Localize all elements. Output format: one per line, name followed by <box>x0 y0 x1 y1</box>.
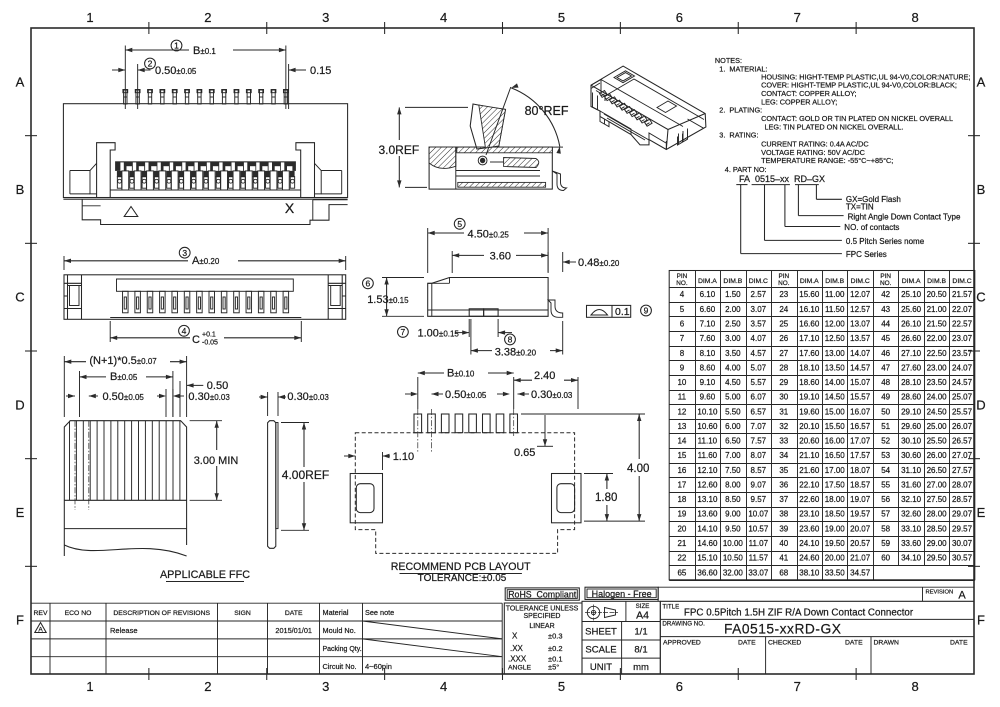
svg-text:CHECKED: CHECKED <box>768 639 801 646</box>
svg-text:29.00: 29.00 <box>927 539 948 548</box>
svg-text:6.50: 6.50 <box>725 437 741 446</box>
svg-text:PIN: PIN <box>880 273 891 280</box>
lever view: bottom hatched strip <box>458 182 546 187</box>
svg-text:FA0515-xxRD-GX: FA0515-xxRD-GX <box>724 622 841 637</box>
svg-text:4.07: 4.07 <box>751 334 767 343</box>
svg-text:21.10: 21.10 <box>799 451 820 460</box>
svg-text:5: 5 <box>558 679 565 694</box>
dimension 0.30±0.03 (PCB) <box>497 393 509 395</box>
svg-text:TOLERANCE UNLESS: TOLERANCE UNLESS <box>506 606 579 613</box>
svg-text:2.40: 2.40 <box>534 370 555 382</box>
isometric view: right hole <box>657 101 677 113</box>
svg-text:57: 57 <box>881 510 890 519</box>
svg-text:42: 42 <box>881 290 890 299</box>
svg-text:NO.: NO. <box>676 280 688 287</box>
svg-text:60: 60 <box>881 554 890 563</box>
svg-text:14.00: 14.00 <box>825 378 846 387</box>
svg-text:28.07: 28.07 <box>952 480 973 489</box>
svg-text:33.60: 33.60 <box>901 539 922 548</box>
svg-text:18.60: 18.60 <box>799 378 820 387</box>
svg-text:4~60pin: 4~60pin <box>365 662 392 671</box>
svg-text:DATE: DATE <box>950 639 968 646</box>
svg-text:3.57: 3.57 <box>751 319 767 328</box>
svg-text:31: 31 <box>779 407 788 416</box>
svg-text:11.50: 11.50 <box>825 305 845 314</box>
svg-text:0.30±0.03: 0.30±0.03 <box>287 391 329 403</box>
svg-text:26.00: 26.00 <box>927 451 948 460</box>
svg-text:25.07: 25.07 <box>952 393 973 402</box>
svg-text:DIM.B: DIM.B <box>723 278 742 285</box>
svg-text:26: 26 <box>779 334 788 343</box>
dimension 1.10 <box>382 452 384 470</box>
svg-text:36: 36 <box>779 480 788 489</box>
svg-text:X: X <box>285 200 295 216</box>
svg-text:28.50: 28.50 <box>927 524 948 533</box>
top view: contact teeth row <box>123 291 129 313</box>
svg-text:LINEAR: LINEAR <box>529 623 554 630</box>
svg-text:Release: Release <box>110 626 138 635</box>
svg-text:10.60: 10.60 <box>697 422 718 431</box>
sheet/scale/unit block <box>582 601 660 674</box>
svg-text:47: 47 <box>881 363 890 372</box>
svg-text:5: 5 <box>680 305 685 314</box>
RoHS Compliant box <box>505 588 579 600</box>
svg-text:8.60: 8.60 <box>700 363 716 372</box>
svg-text:2. PLATING:: 2. PLATING: <box>719 105 762 114</box>
svg-text:A: A <box>38 627 43 634</box>
svg-text:23.10: 23.10 <box>799 510 820 519</box>
svg-text:12.60: 12.60 <box>697 480 718 489</box>
svg-text:0.48±0.20: 0.48±0.20 <box>578 257 620 269</box>
svg-text:TOLERANCE:±0.05: TOLERANCE:±0.05 <box>418 573 507 584</box>
svg-text:23.50: 23.50 <box>927 378 948 387</box>
isometric view: cover inner lines <box>591 80 683 127</box>
isometric view: right feet <box>666 131 687 150</box>
svg-text:11.60: 11.60 <box>698 451 718 460</box>
svg-text:20.07: 20.07 <box>850 524 871 533</box>
svg-text:RECOMMEND PCB LAYOUT: RECOMMEND PCB LAYOUT <box>391 561 531 573</box>
svg-text:31.10: 31.10 <box>901 466 922 475</box>
dimension 1.00±0.15 with balloon 7 <box>468 319 470 337</box>
svg-text:8.10: 8.10 <box>700 349 716 358</box>
svg-text:A: A <box>977 74 986 89</box>
svg-text:49: 49 <box>881 393 890 402</box>
svg-text:27.60: 27.60 <box>901 363 922 372</box>
svg-text:17.57: 17.57 <box>850 451 871 460</box>
svg-text:DIM.B: DIM.B <box>927 278 946 285</box>
svg-text:C: C <box>15 290 24 305</box>
svg-text:11.07: 11.07 <box>749 539 769 548</box>
dimension A±0.20 with balloon 3 <box>63 256 65 270</box>
svg-text:DIM.A: DIM.A <box>800 278 819 285</box>
dimension 0.30±0.03 conductor width <box>165 389 167 417</box>
svg-text:4.00REF: 4.00REF <box>282 468 329 482</box>
svg-text:9.07: 9.07 <box>751 480 767 489</box>
svg-text:21.57: 21.57 <box>952 290 973 299</box>
svg-text:34.57: 34.57 <box>850 568 871 577</box>
FFC front: body with conductors <box>64 421 186 556</box>
dimension C +0.1/-0.05 with balloon 4 <box>109 321 111 342</box>
svg-text:4: 4 <box>440 679 447 694</box>
top view: body outline <box>64 275 346 320</box>
dimension 0.50 edge margin <box>179 381 181 417</box>
svg-text:B: B <box>977 182 986 197</box>
svg-text:E: E <box>16 505 25 520</box>
svg-text:28.60: 28.60 <box>901 393 922 402</box>
svg-text:12: 12 <box>677 407 686 416</box>
dimension 0.65 <box>544 415 546 446</box>
svg-text:14.10: 14.10 <box>697 524 718 533</box>
svg-text:26.10: 26.10 <box>901 319 922 328</box>
svg-text:10.50: 10.50 <box>723 554 744 563</box>
dimension 0.15 (right) <box>288 64 290 109</box>
revision A triangle <box>35 623 46 633</box>
svg-text:2015/01/01: 2015/01/01 <box>275 626 312 635</box>
svg-text:17.60: 17.60 <box>799 349 820 358</box>
svg-text:A: A <box>958 590 966 602</box>
svg-text:16.50: 16.50 <box>825 451 846 460</box>
pin dimension table <box>669 271 975 580</box>
svg-text:20.57: 20.57 <box>850 539 871 548</box>
FFC front: break wave <box>64 545 186 556</box>
svg-text:12.50: 12.50 <box>825 334 846 343</box>
svg-text:24: 24 <box>779 305 788 314</box>
svg-text:Mould No.: Mould No. <box>323 626 356 635</box>
svg-text:DESCRIPTION OF REVISIONS: DESCRIPTION OF REVISIONS <box>113 610 210 617</box>
svg-text:4: 4 <box>440 10 447 25</box>
dimension 0.50±0.05 (PCB) <box>405 393 417 395</box>
svg-text:14.50: 14.50 <box>825 393 846 402</box>
svg-text:DIM.B: DIM.B <box>825 278 844 285</box>
svg-text:9.00: 9.00 <box>725 510 741 519</box>
svg-text:5.07: 5.07 <box>751 363 767 372</box>
svg-text:1.80: 1.80 <box>595 492 617 504</box>
title block: revision table <box>49 603 51 674</box>
svg-text:6.60: 6.60 <box>700 305 716 314</box>
svg-text:22.50: 22.50 <box>927 349 948 358</box>
svg-text:10: 10 <box>677 378 686 387</box>
svg-text:32.10: 32.10 <box>901 495 922 504</box>
svg-text:SCALE: SCALE <box>585 645 616 656</box>
svg-text:44: 44 <box>881 319 890 328</box>
svg-text:13: 13 <box>677 422 686 431</box>
dimension 3.60 <box>451 251 453 273</box>
svg-text:5.57: 5.57 <box>751 378 767 387</box>
svg-text:7.57: 7.57 <box>751 437 767 446</box>
svg-text:23.07: 23.07 <box>952 334 973 343</box>
svg-text:NO. of contacts: NO. of contacts <box>844 223 899 232</box>
svg-text:14.07: 14.07 <box>850 349 871 358</box>
lever view: contact bar <box>504 158 539 168</box>
svg-text:13.00: 13.00 <box>825 349 846 358</box>
svg-text:25.57: 25.57 <box>952 407 973 416</box>
svg-text:7: 7 <box>401 327 406 337</box>
svg-text:X: X <box>512 632 518 641</box>
svg-text:27.50: 27.50 <box>927 495 948 504</box>
lever view: pivot <box>478 156 487 165</box>
svg-text:FPC 0.5Pitch 1.5H ZIF R/A Down: FPC 0.5Pitch 1.5H ZIF R/A Down Contact C… <box>684 608 914 619</box>
svg-text:17.07: 17.07 <box>850 437 871 446</box>
svg-text:28.10: 28.10 <box>901 378 922 387</box>
svg-text:3.00 MIN: 3.00 MIN <box>194 455 239 467</box>
svg-text:3.00: 3.00 <box>725 334 741 343</box>
revision table diagonal slashes <box>363 621 503 639</box>
PCB layout: right anchor pad <box>552 474 582 523</box>
part number callout lines <box>740 185 742 254</box>
svg-text:50: 50 <box>881 407 890 416</box>
top view: left end cap <box>64 275 82 320</box>
svg-text:8.50: 8.50 <box>725 495 741 504</box>
svg-text:21: 21 <box>677 539 686 548</box>
svg-text:0.15: 0.15 <box>310 65 331 77</box>
svg-text:22: 22 <box>677 554 686 563</box>
svg-text:±0.3: ±0.3 <box>548 632 563 641</box>
lever view: body block <box>429 147 552 189</box>
svg-text:35: 35 <box>779 466 788 475</box>
svg-text:38.10: 38.10 <box>799 568 820 577</box>
svg-text:80°REF: 80°REF <box>525 104 569 118</box>
svg-text:LEG: COPPER ALLOY;: LEG: COPPER ALLOY; <box>761 97 837 106</box>
svg-text:20.00: 20.00 <box>825 554 846 563</box>
front view: polarity triangle mark <box>124 207 138 217</box>
svg-text:18.00: 18.00 <box>825 495 846 504</box>
svg-text:13.10: 13.10 <box>697 495 718 504</box>
svg-text:7.60: 7.60 <box>700 334 716 343</box>
svg-text:15.60: 15.60 <box>799 290 820 299</box>
svg-text:REV: REV <box>34 610 48 617</box>
svg-text:15.50: 15.50 <box>825 422 846 431</box>
svg-text:10.10: 10.10 <box>697 407 718 416</box>
svg-text:0.50: 0.50 <box>207 380 228 392</box>
svg-text:10.57: 10.57 <box>748 524 769 533</box>
svg-text:FA 0515–xx RD–GX: FA 0515–xx RD–GX <box>739 174 825 184</box>
svg-text:6: 6 <box>366 279 371 289</box>
svg-text:27.07: 27.07 <box>952 451 973 460</box>
svg-text:68: 68 <box>779 568 788 577</box>
svg-text:13.07: 13.07 <box>850 319 871 328</box>
svg-text:8: 8 <box>508 335 513 345</box>
svg-text:C: C <box>976 290 985 305</box>
lever view: hatched cover strip <box>457 147 553 153</box>
svg-text:23.00: 23.00 <box>927 363 948 372</box>
svg-text:7.10: 7.10 <box>700 319 716 328</box>
svg-text:±0.2: ±0.2 <box>548 644 563 653</box>
svg-text:0.5 Pitch Series nome: 0.5 Pitch Series nome <box>846 237 925 246</box>
svg-text:33.07: 33.07 <box>748 568 769 577</box>
svg-text:37: 37 <box>779 495 788 504</box>
svg-text:4.57: 4.57 <box>751 349 767 358</box>
svg-text:32.60: 32.60 <box>901 510 922 519</box>
isometric view: front face lines <box>600 111 666 143</box>
svg-text:2.57: 2.57 <box>751 290 767 299</box>
svg-text:21.50: 21.50 <box>927 319 948 328</box>
svg-text:11.10: 11.10 <box>698 437 718 446</box>
svg-text:PIN: PIN <box>677 273 688 280</box>
isometric view: left feet <box>593 93 598 111</box>
svg-text:Material: Material <box>323 608 349 617</box>
svg-text:30.10: 30.10 <box>901 437 922 446</box>
border zone ticks <box>148 22 150 34</box>
svg-text:25.00: 25.00 <box>927 422 948 431</box>
svg-text:24.50: 24.50 <box>927 407 948 416</box>
svg-text:DIM.C: DIM.C <box>749 278 768 285</box>
svg-text:0.30±0.03: 0.30±0.03 <box>531 389 573 401</box>
svg-text:F: F <box>16 613 24 628</box>
svg-text:28.57: 28.57 <box>952 495 973 504</box>
svg-text:PIN: PIN <box>778 273 789 280</box>
svg-text:17.50: 17.50 <box>825 480 846 489</box>
svg-text:26.07: 26.07 <box>952 422 973 431</box>
svg-text:20.60: 20.60 <box>799 437 820 446</box>
svg-text:1: 1 <box>86 679 93 694</box>
svg-text:21.00: 21.00 <box>927 305 948 314</box>
svg-text:13.57: 13.57 <box>850 334 871 343</box>
svg-text:17: 17 <box>677 480 686 489</box>
svg-text:4.50±0.25: 4.50±0.25 <box>468 229 510 241</box>
svg-text:3: 3 <box>322 679 329 694</box>
svg-text:59: 59 <box>881 539 890 548</box>
svg-text:Circuit No.: Circuit No. <box>323 662 357 671</box>
dimension 3.00 MIN <box>190 420 222 422</box>
svg-text:18.57: 18.57 <box>850 480 871 489</box>
svg-text:19.07: 19.07 <box>850 495 871 504</box>
svg-text:1.53±0.15: 1.53±0.15 <box>367 294 409 306</box>
svg-text:22.10: 22.10 <box>799 480 820 489</box>
svg-text:15.10: 15.10 <box>697 554 718 563</box>
svg-text:0.50±0.05: 0.50±0.05 <box>445 389 487 401</box>
FFC front: horizontal bands <box>64 499 186 501</box>
svg-text:46: 46 <box>881 349 890 358</box>
svg-text:34.10: 34.10 <box>901 554 922 563</box>
svg-text:DRAWN: DRAWN <box>874 639 900 646</box>
svg-text:22.57: 22.57 <box>952 319 973 328</box>
svg-text:12.57: 12.57 <box>850 305 871 314</box>
svg-text:29.10: 29.10 <box>901 407 922 416</box>
svg-text:56: 56 <box>881 495 890 504</box>
svg-text:12.07: 12.07 <box>850 290 871 299</box>
svg-text:B±0.10: B±0.10 <box>447 368 475 380</box>
svg-text:5.00: 5.00 <box>725 393 741 402</box>
80 degree arc <box>511 88 560 147</box>
isometric view: body outline <box>591 66 706 149</box>
svg-text:APPROVED: APPROVED <box>663 639 701 646</box>
svg-text:7.00: 7.00 <box>725 451 741 460</box>
svg-text:48: 48 <box>881 378 890 387</box>
svg-text:.XXX: .XXX <box>508 655 527 664</box>
svg-text:2.00: 2.00 <box>725 305 741 314</box>
svg-text:8/1: 8/1 <box>634 645 647 656</box>
svg-text:13.60: 13.60 <box>697 510 718 519</box>
svg-text:ECO NO: ECO NO <box>65 610 92 617</box>
svg-text:12.10: 12.10 <box>697 466 718 475</box>
dimension 0.48±0.20 <box>547 252 549 272</box>
dimension (N+1)*0.5±0.07 <box>63 356 65 417</box>
svg-text:1.00±0.15: 1.00±0.15 <box>418 328 460 340</box>
svg-text:19.50: 19.50 <box>825 539 846 548</box>
svg-text:8: 8 <box>911 679 918 694</box>
front view: right latch <box>296 143 315 198</box>
svg-text:28.00: 28.00 <box>927 510 948 519</box>
svg-text:10.07: 10.07 <box>748 510 769 519</box>
svg-text:41: 41 <box>779 554 788 563</box>
svg-text:5.50: 5.50 <box>725 407 741 416</box>
svg-text:19.60: 19.60 <box>799 407 820 416</box>
svg-text:DATE: DATE <box>738 639 756 646</box>
svg-text:6: 6 <box>680 319 685 328</box>
svg-text:ANGLE: ANGLE <box>508 664 532 671</box>
svg-text:.XX: .XX <box>510 644 524 653</box>
isometric view: top hole <box>614 71 635 83</box>
svg-text:DATE: DATE <box>285 610 303 617</box>
FFC front: conductor centerlines <box>74 421 76 510</box>
svg-text:1: 1 <box>174 41 179 51</box>
svg-text:8: 8 <box>680 349 685 358</box>
svg-text:2.50: 2.50 <box>725 319 741 328</box>
section view: solder nails <box>469 309 483 317</box>
svg-text:A: A <box>16 74 25 89</box>
svg-text:APPLICABLE FFC: APPLICABLE FFC <box>160 569 250 581</box>
svg-text:3: 3 <box>322 10 329 25</box>
svg-text:8: 8 <box>911 10 918 25</box>
front view: connector body <box>63 104 347 198</box>
svg-text:TEMPERATURE RANGE: -55°C~+85°C: TEMPERATURE RANGE: -55°C~+85°C; <box>761 156 893 165</box>
svg-text:E: E <box>977 505 986 520</box>
svg-text:B±0.1: B±0.1 <box>193 45 216 57</box>
svg-text:17.00: 17.00 <box>825 466 846 475</box>
svg-text:30.07: 30.07 <box>952 539 973 548</box>
svg-text:B: B <box>16 182 25 197</box>
dimension 3.0REF <box>405 106 468 108</box>
svg-text:C: C <box>192 334 200 346</box>
svg-text:26.50: 26.50 <box>927 466 948 475</box>
svg-text:7.07: 7.07 <box>751 422 767 431</box>
svg-text:26.60: 26.60 <box>901 334 922 343</box>
svg-text:11: 11 <box>678 393 687 402</box>
svg-text:25.10: 25.10 <box>901 290 922 299</box>
svg-text:Halogen - Free: Halogen - Free <box>592 589 652 599</box>
dimension B±0.1 with balloon 1 <box>124 46 126 110</box>
svg-text:15.00: 15.00 <box>825 407 846 416</box>
svg-text:3.38±0.20: 3.38±0.20 <box>495 347 537 359</box>
svg-text:7.50: 7.50 <box>725 466 741 475</box>
svg-text:23.60: 23.60 <box>799 524 820 533</box>
svg-text:19.10: 19.10 <box>799 393 820 402</box>
svg-text:29.57: 29.57 <box>952 524 973 533</box>
svg-text:25.50: 25.50 <box>927 437 948 446</box>
svg-text:31.60: 31.60 <box>901 480 922 489</box>
svg-text:32: 32 <box>779 422 788 431</box>
svg-text:24.57: 24.57 <box>952 378 973 387</box>
svg-text:REVISION: REVISION <box>926 590 954 596</box>
lever view: hatched left block <box>429 147 456 168</box>
svg-text:20.10: 20.10 <box>799 422 820 431</box>
svg-text:30.60: 30.60 <box>901 451 922 460</box>
svg-text:See note: See note <box>365 608 394 617</box>
svg-text:22.07: 22.07 <box>952 305 973 314</box>
svg-text:D: D <box>976 397 985 412</box>
dimension 4.00REF <box>281 422 309 424</box>
svg-text:6: 6 <box>676 679 683 694</box>
svg-text:3.0REF: 3.0REF <box>379 143 420 157</box>
svg-text:52: 52 <box>881 437 890 446</box>
svg-text:0.65: 0.65 <box>514 447 535 459</box>
svg-text:15.07: 15.07 <box>850 378 871 387</box>
svg-text:29.50: 29.50 <box>927 554 948 563</box>
svg-text:1: 1 <box>86 10 93 25</box>
svg-text:Packing Qty.: Packing Qty. <box>323 646 362 653</box>
svg-text:33.10: 33.10 <box>901 524 922 533</box>
svg-text:18.07: 18.07 <box>850 466 871 475</box>
